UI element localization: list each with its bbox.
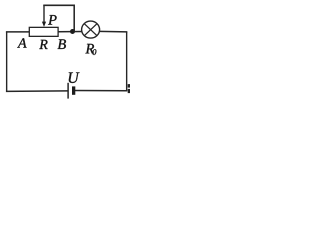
battery U short plate (negative, thick) — [72, 86, 75, 94]
wire: slider tap loop (up from P, across, down to node B) — [43, 5, 74, 31]
lamp cross stroke 2 — [84, 24, 97, 36]
node B junction dot — [70, 29, 75, 34]
stray ink mark lower (cropped character at right edge) — [128, 89, 130, 93]
slider arrow P head — [42, 22, 46, 27]
wire: lamp to top-right corner — [99, 30, 127, 32]
label R0 subscript 0 — [93, 49, 97, 55]
slider arrow P shaft — [43, 5, 45, 23]
stray ink mark upper (cropped character at right edge) — [128, 84, 130, 88]
resistor R (rheostat body) — [29, 27, 58, 36]
wire: bottom segment right of battery — [75, 90, 127, 92]
wire: top segment from left corner to rheostat terminal A — [6, 31, 30, 33]
lamp cross stroke 1 — [84, 24, 97, 36]
label R0 (lamp) — [85, 44, 94, 53]
wire: left vertical side of outer loop — [6, 32, 8, 91]
label U (battery) — [69, 72, 80, 83]
label A (left terminal) — [17, 38, 26, 47]
wire: bottom segment left of battery — [6, 90, 68, 92]
label R (rheostat) — [39, 40, 47, 49]
battery U long plate (positive) — [67, 83, 69, 99]
wire: right vertical side of outer loop — [126, 32, 128, 91]
label B (right terminal) — [58, 39, 66, 49]
lamp R0 circle — [82, 21, 100, 38]
label P (slider) — [48, 15, 57, 24]
wire: from rheostat terminal B to lamp — [58, 31, 83, 33]
